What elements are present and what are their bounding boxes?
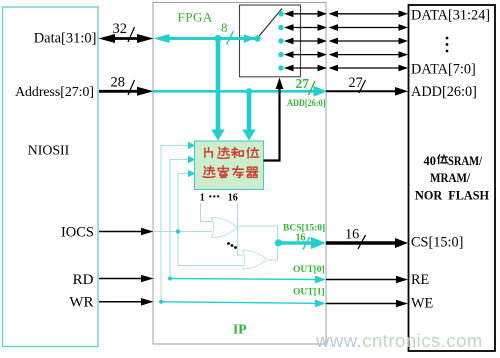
wire WE FPGA to memory [326,300,408,308]
svg-text:WE: WE [411,296,433,312]
wire address FPGA to memory (27) [326,75,408,96]
switch lever [258,9,283,39]
node WR junction [159,300,163,304]
data mux/switch box [240,5,301,77]
svg-text:DATA[31:24]: DATA[31:24] [411,8,490,24]
svg-text:Address[27:0]: Address[27:0] [15,84,94,99]
svg-text:ADD[26:0]: ADD[26:0] [411,84,477,100]
svg-text:ADD[26:0]: ADD[26:0] [287,98,326,109]
wire IOCS feedback up [178,174,188,232]
svg-text:16: 16 [228,193,238,204]
faint select network wires [153,146,278,302]
wire gate1 output [236,226,278,243]
wire WR feedback up [161,146,188,302]
node address junction [246,88,252,94]
memory block 40-bit SRAM/MRAM/NOR FLASH [409,5,496,351]
wire Data bus NIOS-FPGA (32, bidirectional) [99,21,154,43]
svg-text:www.cntronics.com: www.cntronics.com [315,330,483,351]
wire data row 4 [284,51,408,58]
wire register to switch (black) [264,78,284,161]
svg-text:32: 32 [113,21,128,37]
svg-text:SRAM/: SRAM/ [448,154,482,168]
node IOCS junction [176,229,180,233]
svg-text:OUT[1]: OUT[1] [293,288,325,298]
gate U2 (OR) [243,250,268,269]
wire CS FPGA to memory (16) [326,227,408,250]
wire data bus down to register [211,40,224,141]
wire data row 5 [284,65,408,72]
svg-text:1: 1 [200,193,205,204]
vertical ellipsis [446,37,449,53]
wire data row 1 [284,10,408,17]
chip/bit select register box [195,141,264,190]
FPGA block [153,3,326,345]
wire OUT[0] cyan [170,265,326,283]
gate U1 (OR) [212,218,238,238]
node CS bus junction [275,239,282,246]
svg-text:28: 28 [111,75,126,91]
wire select 16 to gate2 [238,204,244,256]
wire RD [99,275,154,283]
svg-text:8: 8 [221,20,228,35]
node data bus junction [215,35,222,42]
svg-text:16: 16 [345,227,359,243]
data lines switch to FPGA edge and to memory (5 rows) [284,10,408,71]
svg-text:RD: RD [73,272,94,288]
svg-text:IOCS: IOCS [61,225,94,241]
register label line2 选寄存器 [203,166,258,178]
wire address down to register [242,93,255,141]
register label line1 片选和位 [205,147,259,158]
wire IOCS [99,228,154,236]
NIOSII processor block [3,7,99,347]
wire WR [99,298,154,306]
svg-text:16: 16 [296,233,306,244]
wire data row 2 [284,24,408,31]
wire BCS[15:0] (16) cyan [278,224,326,250]
cyan address bus inside FPGA (27 / ADD[26:0]) [153,76,328,109]
svg-text:NIOSII: NIOSII [28,143,70,158]
switch contact nodes [278,11,283,71]
cyan data bus inside FPGA (8) [154,20,258,45]
wire Address bus NIOS-FPGA (28) [99,75,154,96]
wire data row 3 [284,38,408,45]
wire gate2 output [268,243,278,260]
wire RD feedback up [170,160,188,279]
node RD junction [168,277,172,281]
svg-text:FPGA: FPGA [178,10,213,25]
svg-text:27: 27 [296,76,310,91]
svg-text:NOR FLASH: NOR FLASH [415,189,489,203]
svg-text:MRAM/: MRAM/ [430,171,470,185]
wire RE FPGA to memory [326,276,408,284]
switch pivot node [254,35,260,41]
svg-text:OUT[0]: OUT[0] [293,265,325,275]
wire IOCS down to gate2 [178,232,243,266]
register input arrows [188,142,196,177]
svg-text:40: 40 [424,154,437,168]
wire select 1 to gate1 [201,204,213,222]
svg-text:Data[31:0]: Data[31:0] [34,31,97,47]
wire OUT[1] cyan [161,288,326,308]
svg-text:IP: IP [233,322,247,337]
ellipsis between gates [227,242,237,249]
svg-text:DATA[7:0]: DATA[7:0] [411,62,476,78]
svg-text:CS[15:0]: CS[15:0] [411,235,463,251]
svg-text:WR: WR [69,295,93,311]
wire IOCS to gate1 [153,231,212,233]
svg-text:RE: RE [411,272,430,288]
